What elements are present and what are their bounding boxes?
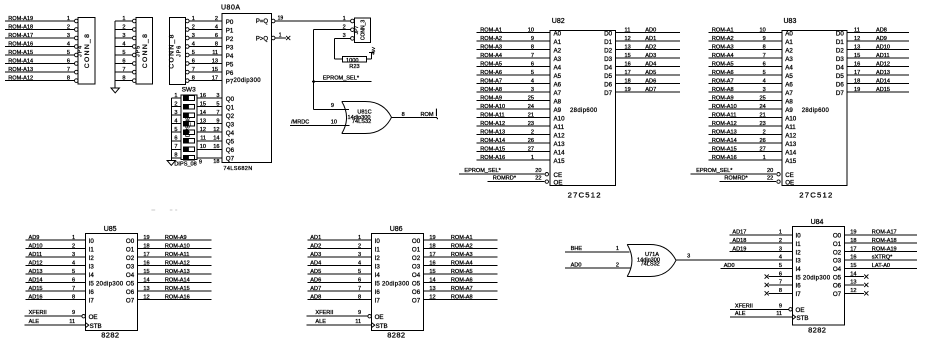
svg-text:7: 7 (763, 53, 766, 59)
svg-text:AD13: AD13 (876, 70, 890, 76)
svg-text:P4: P4 (226, 53, 234, 60)
svg-text:JP4: JP4 (78, 45, 84, 57)
svg-text:D4: D4 (604, 64, 612, 71)
svg-text:U85: U85 (104, 226, 117, 233)
svg-text:I6: I6 (89, 289, 95, 296)
svg-text:CE: CE (554, 172, 563, 179)
svg-text:ROM-A2: ROM-A2 (451, 243, 473, 249)
svg-text:10: 10 (200, 144, 206, 150)
svg-text:AD0: AD0 (724, 263, 735, 269)
svg-text:AD17: AD17 (732, 230, 746, 236)
svg-text:A14: A14 (785, 149, 797, 156)
svg-text:O0: O0 (126, 238, 135, 245)
svg-text:CONN_8: CONN_8 (84, 33, 91, 68)
svg-text:26: 26 (528, 138, 534, 144)
svg-text:5: 5 (779, 263, 782, 269)
svg-text:7: 7 (358, 286, 361, 292)
svg-text:ALE: ALE (315, 319, 326, 325)
svg-text:8282: 8282 (808, 325, 826, 334)
svg-text:O4: O4 (833, 266, 842, 273)
svg-text:21: 21 (759, 112, 765, 118)
svg-text:14: 14 (213, 136, 219, 142)
svg-text:23: 23 (528, 121, 534, 127)
svg-text:I3: I3 (89, 263, 95, 270)
svg-text:8: 8 (192, 75, 195, 81)
svg-text:2: 2 (779, 238, 782, 244)
svg-text:ROMRD*: ROMRD* (493, 176, 517, 182)
svg-text:O5: O5 (126, 280, 135, 287)
svg-text:OE: OE (375, 314, 384, 321)
svg-text:AD13: AD13 (29, 269, 43, 275)
svg-text:9: 9 (531, 36, 534, 42)
svg-text:20: 20 (767, 168, 773, 174)
svg-text:ROM-A16: ROM-A16 (480, 155, 505, 161)
svg-text:7: 7 (192, 67, 195, 73)
svg-text:10: 10 (331, 120, 337, 126)
svg-text:XFERII: XFERII (29, 310, 47, 316)
svg-text:AD14: AD14 (29, 277, 43, 283)
svg-text:ROM-A13: ROM-A13 (165, 269, 190, 275)
svg-text:ROM-A16: ROM-A16 (712, 155, 737, 161)
svg-text:SW3: SW3 (182, 87, 196, 94)
svg-text:ROM-A6: ROM-A6 (480, 70, 502, 76)
svg-text:6: 6 (192, 58, 195, 64)
svg-text:LAT-A0: LAT-A0 (872, 263, 890, 269)
svg-text:O3: O3 (833, 258, 842, 265)
svg-text:5: 5 (531, 70, 534, 76)
svg-text:A0: A0 (785, 30, 793, 37)
svg-text:7: 7 (216, 110, 219, 116)
svg-text:AD1: AD1 (310, 235, 321, 241)
svg-text:8: 8 (122, 75, 125, 81)
svg-text:ROM-A4: ROM-A4 (712, 53, 734, 59)
svg-text:19: 19 (278, 16, 284, 22)
svg-text:OE: OE (796, 307, 805, 314)
svg-text:24: 24 (759, 104, 765, 110)
svg-text:ROMRD*: ROMRD* (724, 176, 748, 182)
svg-text:OE: OE (554, 179, 563, 186)
svg-text:19: 19 (143, 235, 149, 241)
svg-text:6: 6 (174, 136, 177, 142)
svg-text:8282: 8282 (387, 330, 405, 339)
svg-text:6: 6 (358, 277, 361, 283)
svg-text:20dip300: 20dip300 (803, 275, 831, 281)
svg-text:8: 8 (358, 294, 361, 300)
svg-text:15: 15 (854, 53, 860, 59)
svg-text:11: 11 (212, 50, 218, 56)
svg-text:74LS32: 74LS32 (352, 119, 371, 125)
svg-text:I5: I5 (375, 280, 381, 287)
svg-text:CONN_8: CONN_8 (142, 33, 149, 68)
svg-text:26: 26 (759, 138, 765, 144)
svg-text:18: 18 (429, 243, 435, 249)
svg-text:D7: D7 (604, 90, 612, 97)
svg-text:2: 2 (174, 101, 177, 107)
svg-text:ROM-A2: ROM-A2 (712, 36, 734, 42)
svg-text:20dip300: 20dip300 (234, 78, 262, 84)
svg-text:19: 19 (850, 230, 856, 236)
svg-text:1: 1 (531, 155, 534, 161)
svg-text:AD3: AD3 (645, 53, 656, 59)
svg-text:9: 9 (779, 303, 782, 309)
svg-text:ROM-A16: ROM-A16 (8, 41, 33, 47)
svg-text:Q0: Q0 (226, 96, 235, 103)
svg-text:STB: STB (376, 323, 388, 330)
svg-text:ROM-A14: ROM-A14 (712, 138, 737, 144)
svg-text:18: 18 (625, 78, 631, 84)
svg-text:5: 5 (67, 50, 70, 56)
svg-text:4: 4 (174, 119, 177, 125)
svg-text:9: 9 (72, 310, 75, 316)
svg-text:13: 13 (200, 119, 206, 125)
svg-text:ROM-A7: ROM-A7 (451, 286, 473, 292)
svg-text:Q4: Q4 (226, 130, 235, 137)
svg-text:10: 10 (528, 27, 534, 33)
svg-text:AD19: AD19 (732, 246, 746, 252)
svg-text:ALE: ALE (29, 319, 40, 325)
svg-text:ROM-A12: ROM-A12 (480, 121, 505, 127)
svg-text:1: 1 (67, 16, 70, 22)
svg-text:/MRDC: /MRDC (291, 119, 309, 125)
svg-text:ROM-A19: ROM-A19 (8, 16, 33, 22)
svg-text:O2: O2 (412, 255, 421, 262)
svg-text:27C512: 27C512 (799, 191, 833, 200)
svg-text:1: 1 (763, 155, 766, 161)
svg-text:AD10: AD10 (29, 243, 43, 249)
svg-text:A6: A6 (554, 81, 562, 88)
svg-text:23: 23 (759, 121, 765, 127)
svg-text:JP7: JP7 (354, 25, 360, 34)
svg-text:I3: I3 (796, 258, 802, 265)
svg-text:A15: A15 (554, 158, 566, 165)
svg-text:ROM-A6: ROM-A6 (451, 277, 473, 283)
svg-text:8: 8 (215, 41, 218, 47)
svg-text:O7: O7 (126, 297, 135, 304)
svg-text:24: 24 (528, 104, 534, 110)
svg-text:13: 13 (429, 286, 435, 292)
svg-text:AD4: AD4 (310, 260, 321, 266)
svg-text:sXTRQ*: sXTRQ* (872, 255, 893, 261)
svg-text:OE: OE (89, 314, 98, 321)
svg-text:AD0: AD0 (645, 27, 656, 33)
svg-text:I7: I7 (796, 291, 802, 298)
svg-text:12: 12 (850, 288, 856, 294)
svg-text:16: 16 (850, 255, 856, 261)
svg-text:4: 4 (67, 41, 70, 47)
svg-text:AD9: AD9 (876, 36, 887, 42)
svg-text:14: 14 (850, 271, 856, 277)
svg-text:16: 16 (625, 61, 631, 67)
svg-text:11: 11 (776, 311, 782, 317)
svg-text:JP6: JP6 (177, 45, 183, 57)
svg-text:AD7: AD7 (310, 286, 321, 292)
svg-text:ROM-A15: ROM-A15 (165, 286, 190, 292)
svg-text:A13: A13 (554, 141, 566, 148)
svg-text:AD11: AD11 (29, 252, 43, 258)
svg-text:19: 19 (625, 87, 631, 93)
svg-text:P6: P6 (226, 70, 234, 77)
svg-text:ROM-A13: ROM-A13 (480, 129, 505, 135)
svg-text:7: 7 (174, 144, 177, 150)
svg-text:A5: A5 (785, 73, 793, 80)
svg-text:8: 8 (531, 44, 534, 50)
svg-text:2: 2 (763, 129, 766, 135)
svg-text:2: 2 (531, 129, 534, 135)
svg-text:ROM-A11: ROM-A11 (712, 112, 736, 118)
svg-text:U82: U82 (552, 18, 565, 25)
svg-text:12: 12 (143, 294, 149, 300)
svg-text:28dip600: 28dip600 (802, 108, 830, 114)
svg-text:AD3: AD3 (310, 252, 321, 258)
svg-text:Q5: Q5 (226, 139, 235, 146)
svg-text:O1: O1 (126, 246, 135, 253)
svg-text:27: 27 (759, 146, 765, 152)
svg-text:DIPS_08: DIPS_08 (186, 117, 192, 137)
svg-text:6: 6 (122, 58, 125, 64)
svg-text:5: 5 (358, 269, 361, 275)
svg-text:ROM-A16: ROM-A16 (165, 294, 190, 300)
svg-text:O1: O1 (412, 246, 421, 253)
svg-text:A3: A3 (554, 56, 562, 63)
svg-text:ROM-A14: ROM-A14 (165, 277, 190, 283)
svg-text:A4: A4 (785, 64, 793, 71)
svg-text:11: 11 (355, 319, 361, 325)
svg-text:O0: O0 (833, 233, 842, 240)
svg-text:A10: A10 (554, 115, 566, 122)
svg-text:ROM-A9: ROM-A9 (480, 95, 502, 101)
svg-text:13: 13 (212, 58, 218, 64)
svg-text:15: 15 (429, 269, 435, 275)
svg-text:O1: O1 (833, 241, 842, 248)
svg-text:AD16: AD16 (29, 294, 43, 300)
svg-text:ROM-A5: ROM-A5 (451, 269, 473, 275)
svg-text:1: 1 (616, 246, 619, 252)
svg-text:6: 6 (72, 277, 75, 283)
svg-text:6: 6 (215, 33, 218, 39)
svg-text:8: 8 (763, 44, 766, 50)
svg-text:17: 17 (212, 75, 218, 81)
svg-text:8: 8 (779, 288, 782, 294)
svg-text:3: 3 (67, 33, 70, 39)
svg-text:9: 9 (199, 160, 202, 166)
svg-text:D1: D1 (604, 39, 612, 46)
svg-text:I4: I4 (375, 272, 381, 279)
svg-text:ROM-A15: ROM-A15 (712, 146, 737, 152)
svg-text:2: 2 (67, 24, 70, 30)
svg-text:7: 7 (72, 286, 75, 292)
svg-text:+5V: +5V (371, 47, 376, 55)
svg-text:A0: A0 (554, 30, 562, 37)
svg-text:O5: O5 (412, 280, 421, 287)
svg-text:P1: P1 (226, 27, 234, 34)
svg-text:AD8: AD8 (310, 294, 321, 300)
svg-text:A1: A1 (554, 39, 562, 46)
svg-text:I6: I6 (375, 289, 381, 296)
svg-text:D3: D3 (604, 56, 612, 63)
svg-text:12: 12 (625, 36, 631, 42)
svg-text:A6: A6 (785, 81, 793, 88)
svg-text:4: 4 (358, 260, 361, 266)
svg-text:8: 8 (72, 294, 75, 300)
svg-text:O4: O4 (126, 272, 135, 279)
svg-text:P>Q: P>Q (256, 36, 269, 42)
svg-text:16: 16 (213, 144, 219, 150)
svg-text:20dip300: 20dip300 (96, 281, 124, 287)
svg-text:3: 3 (192, 33, 195, 39)
svg-text:5: 5 (216, 101, 219, 107)
svg-text:ROM-A15: ROM-A15 (480, 146, 505, 152)
svg-text:9: 9 (216, 119, 219, 125)
svg-text:EPROM_SEL*: EPROM_SEL* (464, 168, 501, 174)
svg-text:13: 13 (850, 280, 856, 286)
svg-text:AD18: AD18 (732, 238, 746, 244)
svg-text:7: 7 (779, 280, 782, 286)
svg-text:4: 4 (779, 255, 782, 261)
svg-text:ROM-A8: ROM-A8 (712, 87, 734, 93)
svg-text:15: 15 (200, 101, 206, 107)
svg-text:ROM-A5: ROM-A5 (712, 61, 734, 67)
svg-text:D5: D5 (836, 73, 844, 80)
svg-text:A9: A9 (785, 107, 793, 114)
svg-text:22: 22 (535, 176, 541, 182)
svg-text:3: 3 (122, 33, 125, 39)
svg-text:I0: I0 (796, 233, 802, 240)
svg-text:5: 5 (122, 50, 125, 56)
svg-text:12: 12 (429, 294, 435, 300)
svg-text:18: 18 (213, 159, 219, 165)
svg-text:R23: R23 (349, 64, 359, 70)
svg-text:AD15: AD15 (29, 286, 43, 292)
svg-text:ROM-A7: ROM-A7 (712, 78, 734, 84)
svg-text:8282: 8282 (101, 330, 119, 339)
svg-text:3: 3 (358, 252, 361, 258)
svg-text:74LS32: 74LS32 (641, 262, 660, 268)
svg-text:ROM-A12: ROM-A12 (165, 260, 190, 266)
svg-text:4: 4 (72, 260, 75, 266)
svg-text:I0: I0 (375, 238, 381, 245)
svg-text:A7: A7 (554, 90, 562, 97)
svg-text:12: 12 (854, 36, 860, 42)
svg-text:18: 18 (850, 238, 856, 244)
svg-text:18: 18 (143, 243, 149, 249)
svg-text:7: 7 (122, 67, 125, 73)
svg-text:14: 14 (429, 277, 435, 283)
svg-text:17: 17 (625, 70, 631, 76)
svg-text:AD1: AD1 (645, 36, 656, 42)
svg-text:AD7: AD7 (645, 87, 656, 93)
svg-text:A2: A2 (785, 47, 793, 54)
svg-text:2: 2 (122, 24, 125, 30)
svg-text:A10: A10 (785, 115, 797, 122)
svg-text:ROM-A11: ROM-A11 (480, 112, 504, 118)
svg-text:12: 12 (200, 127, 206, 133)
svg-text:A2: A2 (554, 47, 562, 54)
svg-text:16: 16 (854, 61, 860, 67)
svg-text:ROM-A12: ROM-A12 (712, 121, 737, 127)
svg-text:P5: P5 (226, 61, 234, 68)
svg-text:16: 16 (429, 260, 435, 266)
svg-text:3: 3 (174, 110, 177, 116)
svg-text:I5: I5 (796, 274, 802, 281)
svg-text:11: 11 (625, 27, 631, 33)
svg-text:3: 3 (763, 87, 766, 93)
svg-text:ROM-A1: ROM-A1 (480, 27, 502, 33)
svg-text:I4: I4 (796, 266, 802, 273)
svg-text:D0: D0 (604, 30, 612, 37)
svg-text:D5: D5 (604, 73, 612, 80)
svg-text:STB: STB (90, 323, 102, 330)
svg-text:DIPS_08: DIPS_08 (174, 162, 196, 168)
svg-text:A8: A8 (554, 98, 562, 105)
svg-text:25: 25 (759, 95, 765, 101)
svg-text:U83: U83 (784, 18, 797, 25)
svg-text:14: 14 (143, 277, 149, 283)
svg-text:P2: P2 (226, 36, 234, 43)
svg-text:BHE: BHE (571, 246, 583, 252)
svg-text:ROM-A8: ROM-A8 (451, 294, 473, 300)
svg-text:74LS682N: 74LS682N (223, 166, 252, 172)
svg-text:AD5: AD5 (645, 70, 656, 76)
svg-text:4: 4 (531, 78, 534, 84)
svg-text:AD14: AD14 (876, 78, 890, 84)
svg-text:ROM-A10: ROM-A10 (165, 243, 190, 249)
svg-text:I7: I7 (375, 297, 381, 304)
svg-text:Q3: Q3 (226, 122, 235, 129)
svg-text:OE: OE (785, 179, 794, 186)
svg-text:17: 17 (143, 252, 149, 258)
svg-text:10: 10 (759, 27, 765, 33)
svg-text:1: 1 (174, 93, 177, 99)
svg-text:U84: U84 (811, 219, 824, 226)
svg-text:ROM-A9: ROM-A9 (712, 95, 734, 101)
svg-text:4: 4 (215, 24, 218, 30)
svg-text:P=Q: P=Q (256, 19, 269, 25)
svg-text:ROM-A15: ROM-A15 (8, 50, 33, 56)
svg-text:AD2: AD2 (645, 44, 656, 50)
svg-text:AD5: AD5 (310, 269, 321, 275)
svg-text:A11: A11 (554, 124, 565, 131)
svg-text:3: 3 (779, 246, 782, 252)
svg-text:EPROM_SEL*: EPROM_SEL* (696, 168, 733, 174)
svg-text:11: 11 (200, 136, 206, 142)
svg-text:ROM-A6: ROM-A6 (712, 70, 734, 76)
svg-text:3: 3 (216, 93, 219, 99)
svg-text:ROM-A19: ROM-A19 (872, 246, 897, 252)
svg-text:11: 11 (854, 27, 860, 33)
svg-text:O4: O4 (412, 272, 421, 279)
svg-text:D2: D2 (604, 47, 612, 54)
svg-text:Q1: Q1 (226, 104, 235, 111)
svg-text:D2: D2 (836, 47, 844, 54)
svg-text:1: 1 (358, 235, 361, 241)
svg-text:I3: I3 (375, 263, 381, 270)
svg-text:AD2: AD2 (310, 243, 321, 249)
svg-text:15: 15 (625, 53, 631, 59)
svg-text:EPROM_SEL*: EPROM_SEL* (323, 75, 360, 81)
svg-text:9: 9 (763, 36, 766, 42)
svg-text:8: 8 (174, 153, 177, 159)
svg-text:ROM-A10: ROM-A10 (712, 104, 737, 110)
svg-text:O6: O6 (126, 289, 135, 296)
svg-text:18: 18 (854, 78, 860, 84)
svg-text:17: 17 (850, 246, 856, 252)
svg-text:CONN_3: CONN_3 (361, 20, 367, 41)
svg-text:ROM-A10: ROM-A10 (480, 104, 505, 110)
svg-text:I1: I1 (89, 246, 95, 253)
svg-text:12: 12 (213, 127, 219, 133)
svg-text:A4: A4 (554, 64, 562, 71)
svg-text:A13: A13 (785, 141, 797, 148)
